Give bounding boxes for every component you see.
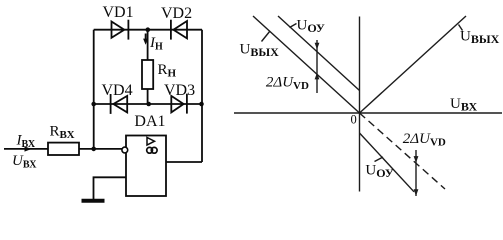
node: bridge bottom left <box>91 102 96 107</box>
dimension arrow 2dU_VD (upper) <box>316 40 318 93</box>
wire: right vertical (bridge to op-amp output) <box>201 30 203 162</box>
svg-text:0: 0 <box>351 113 357 127</box>
wire: bridge top rail <box>94 29 202 31</box>
inverting input inversion circle <box>122 147 128 153</box>
wire: left vertical (input node up to bridge) <box>93 30 95 149</box>
current arrow I_BX on input wire <box>25 146 32 151</box>
tick to U_BbIX label <box>262 31 271 42</box>
svg-text:UОУ: UОУ <box>365 163 394 181</box>
svg-text:RН: RН <box>158 62 177 80</box>
line U_OY upper-left branch <box>278 16 360 91</box>
svg-text:RВХ: RВХ <box>50 124 75 142</box>
wire: op-amp output <box>166 161 202 163</box>
svg-text:UВЫХ: UВЫХ <box>240 42 280 60</box>
svg-text:2ΔUVD: 2ΔUVD <box>403 131 446 149</box>
dimension arrow 2dU_VD (lower) <box>415 150 417 196</box>
svg-text:UВЫХ: UВЫХ <box>460 29 500 47</box>
axis U_BX (horizontal) <box>234 112 502 114</box>
wire: non-inverting input to ground <box>94 177 127 199</box>
node: bridge top center <box>146 27 151 32</box>
svg-text:VD3: VD3 <box>164 82 195 99</box>
diode VD4 <box>113 96 127 113</box>
svg-text:IН: IН <box>149 35 163 53</box>
line U_BbIX upper-right branch <box>360 16 467 113</box>
resistor R_BX <box>48 143 79 155</box>
diode VD3 <box>171 96 183 113</box>
tick to U_OY label (lower) <box>375 157 384 162</box>
op-amp DA1 body <box>126 136 166 197</box>
line U_BbIX upper-left branch <box>253 16 360 113</box>
wire: bridge bottom rail <box>94 103 202 105</box>
diode VD2 <box>173 21 187 38</box>
svg-text:IВХ: IВХ <box>16 133 36 151</box>
wire: R_BX to inverting input <box>79 148 122 150</box>
node: input junction <box>91 147 96 152</box>
tick to U_BbIX label (right) <box>459 25 463 31</box>
node: bridge bottom right <box>199 102 204 107</box>
svg-text:VD1: VD1 <box>103 4 134 21</box>
svg-text:UВХ: UВХ <box>12 153 37 171</box>
op-amp infinity symbol <box>147 147 153 153</box>
ground <box>82 199 105 203</box>
node: bridge bottom center <box>146 102 151 107</box>
svg-text:UВХ: UВХ <box>450 96 478 114</box>
diode VD1 <box>112 22 125 38</box>
line U_OY lower branch (dashed ideal) <box>360 113 446 189</box>
tick to U_OY label <box>290 24 297 28</box>
axis vertical <box>359 17 361 192</box>
svg-text:DA1: DA1 <box>134 113 165 130</box>
wire: top node down to R_H <box>147 30 149 60</box>
resistor R_H <box>142 60 153 89</box>
svg-text:2ΔUVD: 2ΔUVD <box>266 75 309 93</box>
svg-text:VD2: VD2 <box>161 5 192 22</box>
svg-text:UОУ: UОУ <box>297 18 326 36</box>
current arrow I_H <box>145 34 147 41</box>
svg-text:VD4: VD4 <box>102 82 133 99</box>
line U_OY lower branch (solid) <box>360 133 415 192</box>
op-amp gain triangle symbol <box>147 138 155 146</box>
wire: input from left to R_BX <box>4 148 48 150</box>
wire: R_H down to bottom rail <box>147 89 149 104</box>
